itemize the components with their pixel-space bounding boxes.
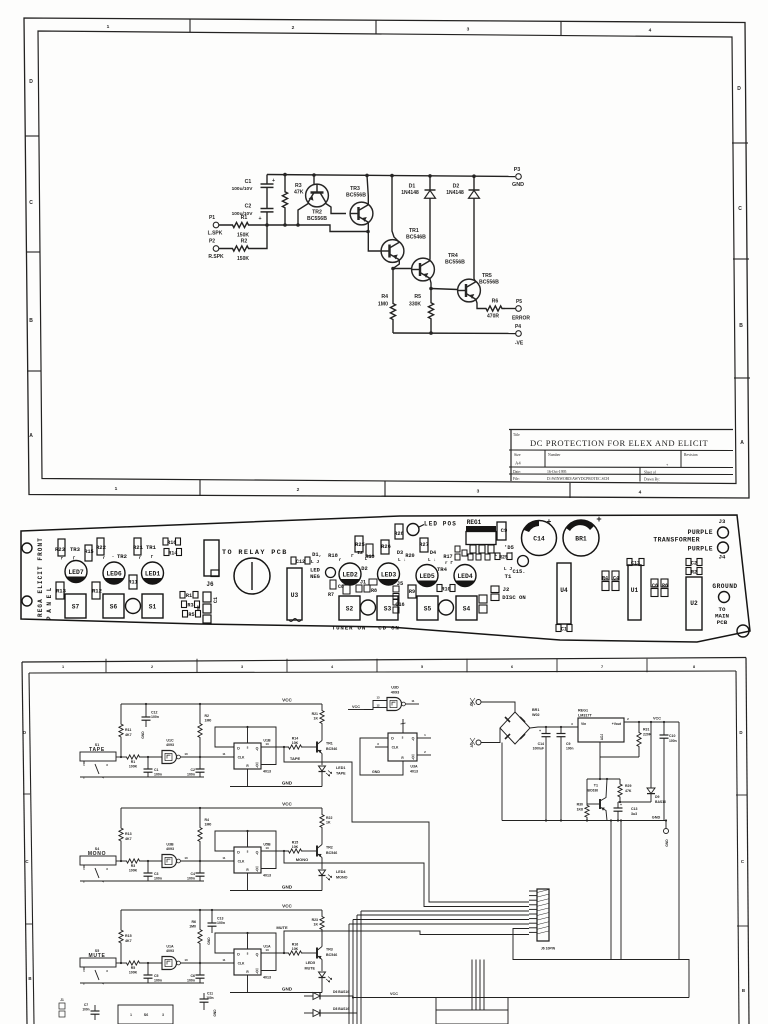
switch S1 TAPE — [80, 752, 116, 761]
svg-text:C2: C2 — [691, 560, 697, 566]
capacitor C1 — [147, 757, 149, 769]
resistor R3 100K — [116, 860, 126, 862]
svg-text:R5: R5 — [188, 612, 194, 618]
wire bridge to regulator — [530, 727, 578, 728]
wire gate out to CLK MUTE — [181, 962, 235, 964]
svg-text:BC556B: BC556B — [307, 216, 327, 222]
svg-text:BC546: BC546 — [326, 851, 337, 855]
svg-text:R28: R28 — [394, 531, 404, 537]
svg-text:R20: R20 — [405, 553, 414, 559]
wire VCC rail bottom — [353, 997, 689, 999]
svg-text:10K: 10K — [292, 947, 299, 951]
transistor T1 — [599, 799, 601, 809]
svg-text:100n: 100n — [154, 877, 162, 881]
pcb big hole relay — [234, 558, 270, 594]
svg-text:C7: C7 — [84, 1003, 88, 1007]
svg-text:1: 1 — [107, 24, 110, 30]
svg-text:TRANSFORMER: TRANSFORMER — [653, 537, 700, 544]
wire bottom bus drops — [471, 960, 473, 1011]
svg-text:C15.: C15. — [513, 569, 526, 575]
led LED3 — [378, 563, 400, 585]
resistor R28 — [395, 524, 403, 539]
switch S4 MONO — [80, 856, 116, 865]
wire T1 box top — [587, 778, 620, 780]
svg-text:C6: C6 — [191, 974, 196, 978]
connector J2 — [491, 586, 499, 593]
ic bottom partial — [436, 1010, 508, 1024]
svg-text:r: r — [103, 557, 106, 561]
wire node line — [262, 225, 368, 232]
wire U3A Q outputs — [417, 737, 431, 739]
svg-text:R26: R26 — [381, 544, 391, 550]
svg-text:1N4148: 1N4148 — [401, 190, 419, 196]
led pos hole and label — [407, 524, 419, 536]
resistor R11 4K7 — [119, 704, 123, 757]
border row ticks left — [25, 135, 39, 137]
svg-text:R1: R1 — [241, 215, 248, 221]
resistor R4 1M0 — [198, 808, 202, 861]
svg-text:S7: S7 — [72, 604, 80, 611]
svg-text:D: D — [23, 730, 26, 735]
svg-text:B: B — [739, 323, 743, 329]
svg-text:VCC: VCC — [390, 992, 398, 996]
svg-text:Q: Q — [256, 970, 259, 974]
svg-text:CLK: CLK — [238, 962, 245, 966]
junction dot bottom rail — [429, 331, 433, 335]
wire net MUTE loop — [284, 931, 529, 953]
svg-text:BC546: BC546 — [326, 953, 337, 957]
svg-text:C: C — [29, 200, 33, 206]
terminal P5 ERROR — [505, 308, 516, 310]
capacitor C2 pcb — [686, 559, 691, 566]
svg-text:13: 13 — [265, 948, 269, 952]
svg-text:GND: GND — [665, 839, 669, 847]
svg-text:4093: 4093 — [166, 743, 174, 747]
svg-text:J3: J3 — [719, 518, 726, 525]
svg-text:R: R — [401, 756, 404, 760]
transistor TR3 — [350, 202, 373, 225]
wire U3A S pin — [402, 719, 404, 733]
wire loop below connector — [513, 929, 689, 998]
capacitor C2 — [266, 188, 268, 209]
svg-text:TR4: TR4 — [448, 253, 458, 259]
diode D9 BAS16 — [650, 722, 652, 788]
resistor R5 — [183, 611, 188, 618]
svg-text:C: C — [741, 859, 745, 864]
resistor R21 1K — [321, 730, 323, 741]
svg-text:R30: R30 — [577, 803, 583, 807]
svg-text:D: D — [737, 86, 741, 92]
svg-text:S6: S6 — [110, 604, 118, 611]
svg-text:REG1: REG1 — [578, 709, 588, 713]
svg-text:4: 4 — [102, 982, 104, 986]
svg-text:R16: R16 — [292, 943, 298, 947]
svg-text:T1: T1 — [594, 784, 598, 788]
wire VCC rail MUTE — [121, 909, 322, 911]
wire flipflop feedback loop TAPE — [215, 727, 276, 765]
hole S5 S4 — [439, 600, 454, 615]
capacitor C12 — [291, 557, 296, 564]
svg-text:100u/10V: 100u/10V — [232, 186, 254, 192]
diode D1 — [429, 176, 431, 190]
svg-text:D: D — [237, 953, 240, 957]
svg-text:TAPE: TAPE — [336, 772, 346, 776]
svg-text:6: 6 — [511, 665, 513, 669]
svg-text:1000uF: 1000uF — [533, 747, 544, 751]
flipflop U3A 4013 — [388, 733, 417, 761]
wire TR4 emitter down — [430, 278, 431, 288]
terminal AC bottom — [476, 740, 481, 745]
resistor R7 — [343, 585, 350, 594]
wire TR5 emitter to R6 — [476, 299, 483, 308]
svg-text:C10: C10 — [669, 734, 675, 738]
svg-text:Drawn By:: Drawn By: — [644, 478, 660, 482]
transistor TR1 — [381, 240, 404, 263]
resistor R30 — [585, 802, 589, 821]
svg-text:4: 4 — [331, 665, 334, 669]
svg-text:r: r — [139, 557, 142, 561]
svg-text:2: 2 — [83, 982, 85, 986]
svg-text:3u3: 3u3 — [631, 812, 637, 816]
resistor R5 100K — [116, 962, 126, 964]
svg-text:P1: P1 — [209, 215, 215, 221]
svg-text:+: + — [547, 517, 552, 526]
svg-text:13: 13 — [265, 846, 269, 850]
resistor R21 — [134, 538, 141, 555]
resistor R22 1K — [321, 834, 323, 845]
resistor R16 — [163, 538, 168, 545]
svg-text:10: 10 — [184, 856, 188, 860]
wire top GND rail — [267, 175, 515, 177]
wire T1 box left — [586, 779, 588, 802]
svg-text:+: + — [666, 462, 669, 467]
svg-text:Date:: Date: — [513, 470, 521, 474]
svg-text:.: . — [111, 553, 114, 559]
svg-text:R7: R7 — [328, 592, 334, 598]
svg-text:C13: C13 — [217, 917, 223, 921]
svg-text:R: R — [246, 764, 249, 768]
svg-text:BC546: BC546 — [326, 747, 337, 751]
svg-text:U1C: U1C — [166, 739, 174, 743]
svg-text:R18: R18 — [328, 553, 338, 559]
svg-text:1M0: 1M0 — [205, 719, 212, 723]
svg-text:1K: 1K — [326, 821, 331, 825]
svg-text:R11: R11 — [125, 728, 131, 732]
small parts row left — [455, 546, 460, 552]
ic U3 — [287, 568, 302, 620]
svg-text:13: 13 — [265, 742, 269, 746]
svg-text:A: A — [740, 440, 744, 446]
border row ticks right — [732, 142, 748, 144]
wire bus verticals — [360, 911, 362, 1024]
svg-text:PCB: PCB — [717, 619, 728, 626]
junction dots on GND rail — [283, 173, 287, 177]
svg-text:R3: R3 — [131, 864, 136, 868]
svg-text:r: r — [61, 558, 64, 562]
svg-text:GND: GND — [652, 816, 661, 820]
svg-text:D4: D4 — [430, 550, 436, 556]
svg-text:P3: P3 — [514, 167, 521, 173]
transistor TR5 — [458, 279, 481, 302]
svg-text:+: + — [258, 216, 261, 222]
svg-text:S6: S6 — [144, 1013, 148, 1017]
svg-text:4: 4 — [102, 776, 104, 780]
svg-text:4013: 4013 — [263, 874, 271, 878]
svg-text:D: D — [237, 851, 240, 855]
svg-text:S2: S2 — [346, 606, 354, 613]
junction dot TR1 emitter — [391, 267, 395, 271]
svg-text:C4: C4 — [191, 872, 196, 876]
svg-text:C5: C5 — [154, 974, 159, 978]
svg-text:LM317T: LM317T — [578, 714, 592, 718]
capacitor C11 under U4 — [556, 625, 561, 632]
resistor R14 — [164, 549, 169, 556]
svg-text:1: 1 — [130, 1013, 132, 1017]
svg-text:PURPLE: PURPLE — [688, 546, 713, 553]
svg-text:R29: R29 — [625, 784, 631, 788]
parts C6 R6 — [651, 579, 658, 587]
svg-text:100K: 100K — [129, 765, 138, 769]
svg-text:L J: L J — [504, 566, 513, 572]
wire flipflop feedback loop MONO — [215, 831, 276, 869]
svg-text:3: 3 — [106, 763, 108, 767]
resistor R15 — [85, 545, 92, 561]
wire ADJ network — [599, 742, 601, 779]
resistor R27 — [420, 538, 428, 552]
svg-text:1N4148: 1N4148 — [446, 190, 464, 196]
svg-text:D:\WINWORD\AWYDCPROTEC.SCH: D:\WINWORD\AWYDCPROTEC.SCH — [547, 477, 609, 481]
svg-text:R2: R2 — [241, 239, 248, 245]
capacitor C5 — [147, 963, 149, 975]
resistor R2 pcb — [686, 568, 691, 575]
svg-text:TAPE: TAPE — [290, 756, 301, 761]
svg-text:R4: R4 — [602, 576, 608, 582]
svg-text:J1: J1 — [60, 998, 64, 1002]
svg-text:R1: R1 — [186, 593, 192, 599]
svg-text:C1: C1 — [213, 597, 219, 603]
svg-text:GND: GND — [141, 731, 145, 739]
switch S6 — [103, 594, 124, 618]
regulator REG1 LM317T — [578, 718, 624, 742]
svg-text:TR2: TR2 — [326, 846, 333, 850]
wire R29 bottom — [618, 801, 651, 803]
switch S1 — [142, 594, 163, 618]
wire switch common rail MUTE — [80, 982, 204, 984]
wire Q to resistor MUTE — [261, 952, 287, 954]
svg-text:CLK: CLK — [238, 860, 245, 864]
svg-text:2: 2 — [83, 776, 85, 780]
svg-text:TR5: TR5 — [482, 273, 492, 279]
nand gate U3B 4093 — [161, 858, 163, 865]
led LED4 MONO — [321, 858, 323, 870]
wire GND rail MONO — [230, 890, 322, 892]
svg-text:CLK: CLK — [392, 746, 399, 750]
svg-text:11: 11 — [411, 699, 415, 703]
svg-text:ADJ: ADJ — [600, 734, 604, 741]
svg-text:100n: 100n — [151, 715, 159, 719]
resistor R1 — [180, 592, 185, 599]
resistor R6 1M0 — [198, 910, 202, 963]
svg-text:1: 1 — [115, 486, 118, 492]
capacitor C6 — [199, 963, 201, 975]
svg-text:BC636: BC636 — [587, 789, 598, 793]
svg-text:C3: C3 — [154, 872, 159, 876]
svg-text:D2: D2 — [453, 184, 460, 190]
border column ticks top — [189, 19, 191, 32]
svg-text:11: 11 — [222, 856, 226, 860]
svg-text:BC556B: BC556B — [479, 280, 499, 286]
wire TR1 emitter down — [393, 260, 399, 290]
connector J1 — [356, 585, 362, 592]
svg-text:J6 10PIN: J6 10PIN — [541, 947, 556, 951]
svg-text:BC546B: BC546B — [406, 235, 426, 241]
svg-text:GND: GND — [282, 987, 293, 992]
resistor R26 — [381, 540, 389, 554]
capacitor C14 big — [522, 521, 557, 556]
svg-text:4K7: 4K7 — [125, 837, 132, 841]
svg-text:R: R — [246, 970, 249, 974]
svg-text:MUTE: MUTE — [276, 925, 288, 930]
svg-text:C9: C9 — [566, 742, 571, 746]
svg-text:C1: C1 — [561, 626, 567, 632]
bridge rectifier BR1 — [500, 712, 530, 744]
svg-text:D6 BAS16: D6 BAS16 — [333, 990, 349, 994]
resistor R1 — [219, 222, 262, 227]
wire TR3 collector to TR1 base — [368, 222, 381, 251]
svg-text:File:: File: — [513, 477, 520, 481]
resistor R15 10K — [287, 849, 303, 853]
svg-text:1M0: 1M0 — [205, 823, 212, 827]
resistor R5 — [428, 289, 433, 334]
svg-text:GROUND: GROUND — [712, 583, 737, 590]
pcb mounting hole bottom left — [22, 596, 32, 606]
svg-text:LED POS: LED POS — [424, 521, 457, 528]
resistor R1 100K — [116, 756, 126, 758]
svg-text:3: 3 — [106, 867, 108, 871]
resistor R23 — [58, 539, 65, 556]
svg-text:TUNER ON: TUNER ON — [332, 625, 366, 632]
svg-text:4: 4 — [102, 880, 104, 884]
flipflop U1B 4013 — [234, 743, 261, 769]
svg-text:R25: R25 — [499, 554, 508, 560]
ic U1 — [628, 565, 641, 620]
svg-text:GND: GND — [207, 937, 211, 945]
resistor R14 10K — [287, 745, 303, 749]
svg-text:2: 2 — [292, 25, 295, 31]
svg-text:1M0: 1M0 — [378, 302, 388, 308]
transistor TR1 — [316, 742, 318, 753]
svg-text:Number: Number — [548, 453, 561, 457]
svg-text:GND: GND — [282, 885, 293, 890]
switch S7 — [65, 594, 86, 618]
svg-text:3: 3 — [377, 742, 379, 746]
svg-text:C4: C4 — [613, 576, 619, 582]
svg-text:R21: R21 — [312, 712, 318, 716]
pcb hole between S6 S1 — [126, 599, 141, 614]
terminal P1 L.SPK — [213, 222, 219, 228]
resistor R3 — [182, 601, 187, 608]
capacitor C13 — [211, 910, 213, 923]
svg-text:100n: 100n — [187, 979, 195, 983]
svg-text:1K: 1K — [314, 717, 319, 721]
svg-text:10K: 10K — [292, 845, 299, 849]
svg-text:47K: 47K — [294, 190, 304, 196]
diode D8 BAS16 — [304, 1012, 313, 1014]
svg-text:C12: C12 — [151, 711, 157, 715]
svg-text:4013: 4013 — [263, 976, 271, 980]
wire gnd drops — [610, 821, 612, 960]
sheet2 column ticks — [105, 659, 107, 673]
svg-text:R3: R3 — [187, 602, 193, 608]
svg-text:D9: D9 — [655, 795, 660, 799]
svg-text:R23: R23 — [312, 918, 318, 922]
svg-text:VCC: VCC — [282, 904, 292, 909]
svg-text:4K7: 4K7 — [125, 733, 132, 737]
svg-text:47K: 47K — [625, 789, 632, 793]
svg-text:S5: S5 — [424, 606, 432, 613]
svg-text:R10: R10 — [441, 586, 450, 592]
part right of S4 — [479, 595, 487, 603]
svg-text:R2: R2 — [691, 569, 697, 575]
svg-text:3: 3 — [241, 665, 243, 669]
svg-text:U3: U3 — [291, 592, 299, 599]
connector J6 10PIN — [537, 889, 549, 941]
svg-text:CD ON: CD ON — [378, 625, 399, 632]
resistor R6 — [483, 306, 505, 311]
svg-text:REG1: REG1 — [467, 519, 482, 526]
sheet border inner — [38, 31, 736, 484]
svg-text:3: 3 — [106, 969, 108, 973]
svg-text:PURPLE: PURPLE — [688, 529, 713, 536]
wire gate out to CLK MONO — [181, 860, 235, 862]
svg-text:TO RELAY PCB: TO RELAY PCB — [222, 549, 288, 557]
svg-text:LED6: LED6 — [106, 570, 122, 577]
svg-text:100n: 100n — [187, 877, 195, 881]
svg-text:TR1: TR1 — [146, 544, 157, 551]
resistor R8 — [369, 579, 377, 585]
svg-text:B: B — [29, 318, 33, 324]
svg-text:C: C — [25, 859, 29, 864]
svg-text:TR3: TR3 — [70, 546, 81, 553]
svg-text:1K8: 1K8 — [577, 808, 583, 812]
switch bottom partial — [118, 1005, 173, 1024]
wire bottom ff columns — [435, 998, 437, 1011]
svg-text:s: s — [247, 850, 249, 854]
terminal P4 -VE — [516, 331, 522, 337]
svg-text:P2: P2 — [209, 239, 215, 245]
switch S5 — [417, 596, 438, 620]
bridge BR1 big — [563, 520, 599, 556]
svg-text:C12: C12 — [296, 559, 305, 565]
svg-text:L.SPK: L.SPK — [208, 231, 223, 237]
svg-text:R15: R15 — [84, 549, 93, 555]
svg-text:TAPE: TAPE — [89, 747, 105, 753]
resistor R9 — [408, 585, 416, 598]
junction dot TR4 emitter — [429, 287, 433, 291]
svg-text:2: 2 — [424, 750, 426, 754]
svg-text:R12: R12 — [92, 588, 103, 595]
svg-text:Q: Q — [256, 953, 259, 957]
sheet2 border outer — [22, 658, 746, 663]
svg-text:D1: D1 — [409, 184, 416, 190]
resistor R25 — [355, 536, 363, 552]
svg-text:Γ: Γ — [151, 556, 154, 560]
resistor R4 — [390, 290, 395, 333]
resistor R15 4K7 — [119, 910, 123, 963]
wire net MONO to bus — [284, 851, 529, 907]
wire TR4 emitter to TR5 base — [431, 289, 458, 290]
terminal P2 R.SPK — [213, 246, 219, 252]
